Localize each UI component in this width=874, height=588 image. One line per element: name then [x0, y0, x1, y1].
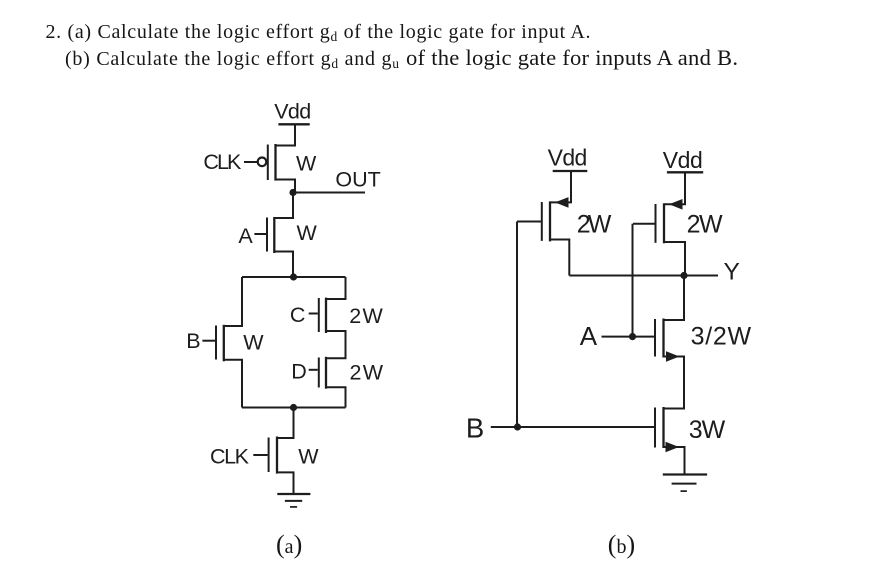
svg-text:W: W: [243, 331, 264, 355]
svg-text:(b): (b): [608, 530, 635, 559]
svg-text:W: W: [297, 221, 318, 245]
svg-text:OUT: OUT: [335, 167, 380, 191]
svg-text:CLK: CLK: [210, 444, 250, 468]
svg-text:Y: Y: [724, 259, 740, 286]
svg-text:Vdd: Vdd: [548, 145, 588, 171]
svg-text:2W: 2W: [687, 211, 723, 239]
svg-text:D: D: [291, 360, 307, 384]
svg-text:2. (a) Calculate the logic eff: 2. (a) Calculate the logic effort gd of …: [46, 21, 592, 44]
svg-text:W: W: [298, 444, 319, 468]
svg-text:2W: 2W: [577, 211, 612, 239]
svg-text:2W: 2W: [350, 361, 384, 385]
svg-text:A: A: [238, 224, 253, 248]
svg-text:Vdd: Vdd: [663, 147, 703, 173]
svg-text:(a): (a): [276, 530, 302, 559]
svg-text:Vdd: Vdd: [274, 100, 311, 124]
svg-text:(b) Calculate the logic effort: (b) Calculate the logic effort gd and gu: [65, 48, 400, 71]
svg-text:W: W: [296, 152, 317, 176]
svg-text:CLK: CLK: [203, 150, 242, 174]
svg-text:2W: 2W: [349, 304, 383, 328]
svg-text:C: C: [290, 303, 306, 327]
svg-text:3W: 3W: [689, 416, 726, 444]
svg-text:B: B: [186, 329, 200, 353]
svg-text:of the logic gate for inputs A: of the logic gate for inputs A and B.: [406, 45, 738, 70]
svg-text:3/2W: 3/2W: [691, 323, 752, 351]
svg-text:B: B: [466, 412, 484, 443]
svg-text:A: A: [580, 321, 598, 351]
